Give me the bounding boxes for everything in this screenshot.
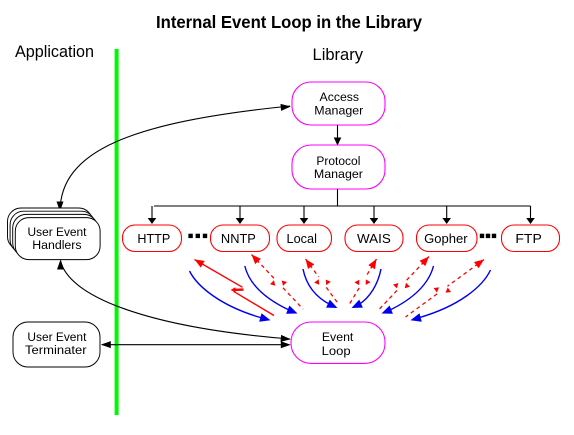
svg-text:WAIS: WAIS bbox=[357, 232, 391, 246]
svg-text:Application: Application bbox=[15, 42, 94, 61]
svg-text:FTP: FTP bbox=[515, 232, 541, 246]
box Event Loop bbox=[291, 322, 385, 363]
box Gopher bbox=[417, 225, 478, 252]
arrow drop to protocol at x=152 bbox=[151, 206, 153, 218]
arrow drop to protocol at x=304 bbox=[303, 206, 305, 218]
box HTTP bbox=[123, 225, 182, 252]
box NNTP bbox=[211, 225, 270, 252]
wire curve User Event Handlers to Event Loop bbox=[61, 261, 291, 340]
box Access Manager bbox=[292, 82, 385, 125]
svg-text:HTTP: HTTP bbox=[137, 232, 170, 246]
red dashed arrow FTP bbox=[406, 260, 485, 318]
svg-text:Handlers: Handlers bbox=[32, 238, 81, 252]
blue event arrow Local bbox=[303, 269, 338, 308]
arrow Access Manager to Protocol Manager bbox=[337, 125, 339, 138]
svg-text:Access: Access bbox=[320, 90, 360, 104]
svg-text:Loop: Loop bbox=[322, 344, 351, 358]
blue event arrow NNTP bbox=[245, 266, 298, 314]
red dashed arrow WAIS bbox=[350, 259, 377, 304]
svg-text:Library: Library bbox=[313, 45, 364, 64]
red interrupt arrow HTTP bbox=[195, 260, 275, 316]
divider green line bbox=[115, 49, 119, 415]
arrow drop to protocol at x=530 bbox=[530, 206, 532, 218]
red dashed arrow NNTP bbox=[252, 255, 304, 310]
box WAIS bbox=[345, 225, 403, 252]
ellipsis between Gopher and FTP bbox=[480, 234, 496, 238]
svg-text:Terminater: Terminater bbox=[25, 343, 87, 357]
svg-text:NNTP: NNTP bbox=[221, 232, 256, 246]
svg-text:Internal Event Loop in the Lib: Internal Event Loop in the Library bbox=[156, 12, 422, 32]
svg-text:Manager: Manager bbox=[314, 167, 363, 181]
ellipsis between HTTP and NNTP bbox=[188, 234, 207, 238]
blue event arrow WAIS bbox=[352, 269, 382, 308]
box User Event Terminater bbox=[13, 322, 100, 367]
box User Event Handlers (stack) bbox=[8, 208, 101, 260]
blue event arrow FTP bbox=[411, 270, 491, 322]
blue event arrow Gopher bbox=[382, 266, 434, 314]
svg-text:Protocol: Protocol bbox=[316, 154, 360, 168]
arrow drop to protocol at x=374 bbox=[373, 206, 375, 218]
red dashed arrow Local bbox=[306, 259, 339, 304]
svg-text:Manager: Manager bbox=[314, 103, 363, 117]
wire curve User Event Handlers to Access Manager bbox=[60, 106, 290, 212]
svg-text:Local: Local bbox=[287, 232, 317, 246]
red dashed arrow Gopher bbox=[379, 257, 430, 311]
arrow drop to protocol at x=240 bbox=[239, 206, 241, 218]
box Protocol Manager bbox=[292, 145, 385, 189]
box Local bbox=[277, 225, 332, 252]
wire User Event Terminater to Event Loop bbox=[102, 344, 289, 346]
svg-text:User Event: User Event bbox=[28, 225, 88, 239]
blue event arrow HTTP bbox=[190, 271, 271, 322]
arrow drop to protocol at x=447 bbox=[446, 206, 448, 218]
wire distribution bus bbox=[154, 205, 531, 207]
box FTP bbox=[502, 225, 560, 252]
svg-text:Event: Event bbox=[322, 330, 354, 344]
wire Protocol Manager stem bbox=[337, 189, 339, 207]
svg-text:Gopher: Gopher bbox=[424, 232, 468, 246]
